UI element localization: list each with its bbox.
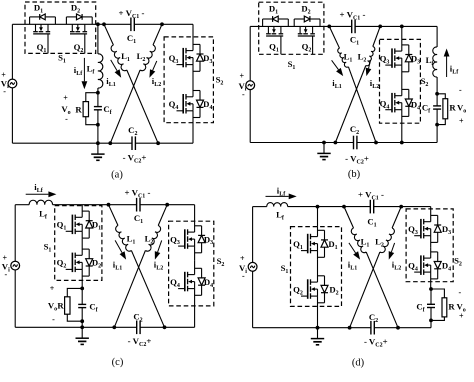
capacitor Cf fig-c	[81, 288, 83, 321]
switch box S2 fig-c	[169, 221, 214, 306]
inductor L2 fig-a diagonal	[153, 24, 162, 45]
transistor Q3 fig-a with diode D3	[192, 24, 194, 37]
current arrow iL2 fig-c	[158, 240, 162, 252]
current arrow iL2 fig-d	[391, 243, 394, 252]
svg-text:-: -	[459, 86, 462, 95]
svg-text:(c): (c)	[112, 357, 124, 368]
inductor Lf fig-b	[436, 26, 438, 47]
inductor L2 fig-b diagonal	[373, 26, 380, 46]
capacitor C1 fig-d	[370, 204, 373, 209]
switch box S2 fig-b	[380, 39, 421, 123]
svg-text:-: -	[65, 115, 68, 124]
node: fig-b diag bottoms	[334, 141, 338, 145]
source Vi fig-c	[11, 261, 20, 270]
svg-text:R: R	[57, 301, 64, 311]
wire: fig-a top bus	[12, 23, 193, 25]
svg-text:-: -	[52, 315, 55, 324]
node: fig-d output bottom	[429, 319, 433, 323]
svg-text:R: R	[449, 103, 456, 113]
transistor Q3 fig-c with diode D3	[194, 205, 196, 222]
svg-text:+: +	[240, 254, 245, 263]
node: fig-b output bottom	[435, 123, 439, 127]
wire: fig-c bottom bus	[15, 326, 194, 328]
ground fig-a	[97, 143, 99, 154]
wire: fig-b left branch	[249, 26, 251, 81]
node: fig-d L1 top	[342, 205, 346, 209]
ground fig-d	[317, 328, 319, 339]
ground fig-c	[81, 327, 83, 338]
inductor Lf fig-a	[97, 24, 99, 54]
node: fig-a diag left bottom	[108, 141, 112, 145]
capacitor Cf fig-d	[430, 289, 432, 320]
node: fig-a filter tap	[96, 22, 100, 26]
wire: fig-a bottom bus	[12, 142, 193, 144]
transistor Q4 fig-b with diode D4	[401, 79, 403, 96]
transistor Q3 fig-b with diode D3	[401, 26, 403, 40]
transistor Q3 fig-d with diode D3	[430, 207, 432, 209]
capacitor C2 fig-a	[132, 141, 135, 146]
source Vi fig-d	[248, 262, 257, 271]
wire: fig-d left branch	[252, 207, 254, 263]
output filter fig-a: node top	[96, 91, 100, 95]
node: fig-c output top	[80, 287, 84, 291]
transistor Q2 fig-b with diode D2	[293, 19, 295, 26]
node: fig-c output bottom	[80, 319, 84, 323]
svg-text:-: -	[459, 288, 462, 297]
transistor Q4 fig-a with diode D4	[192, 81, 194, 97]
capacitor C1 fig-c	[137, 202, 140, 207]
svg-text:+: +	[240, 72, 245, 81]
transistor Q1 fig-b with diode D1	[262, 19, 264, 26]
inductor L1 fig-b diagonal	[329, 26, 339, 48]
switch box S1 fig-b	[259, 2, 324, 54]
wire: fig-a left branch with source	[11, 24, 13, 79]
capacitor C2 fig-c	[137, 325, 140, 330]
switch box S1 fig-c	[55, 206, 102, 281]
wire: fig-b top bus	[250, 25, 437, 27]
svg-text:+: +	[50, 284, 55, 293]
transistor Q1 fig-d with diode D1	[317, 207, 319, 227]
inductor L2 fig-d diagonal	[392, 207, 401, 228]
capacitor Cf fig-a	[97, 93, 99, 125]
current arrow iL2 fig-a	[153, 61, 157, 71]
svg-text:-: -	[3, 87, 6, 96]
svg-text:R: R	[448, 302, 455, 312]
capacitor C2 fig-d	[371, 325, 374, 330]
svg-text:-: -	[5, 270, 8, 279]
node: fig-c ground junction	[80, 325, 84, 329]
capacitor C2 fig-b	[354, 140, 357, 145]
current arrow iLf fig-c	[26, 193, 49, 195]
wire: fig-d top bus with Lf gap	[253, 206, 267, 208]
transistor Q1 fig-c with diode D1	[81, 205, 83, 218]
node: fig-b L1 top	[327, 25, 331, 29]
current arrow iL1 fig-d	[349, 243, 356, 253]
node: fig-d L2 top	[399, 205, 403, 209]
inductor Lf fig-c	[29, 200, 52, 204]
capacitor Cf fig-b	[436, 94, 438, 125]
node: fig-a output bottom	[96, 123, 100, 127]
inductor Lf fig-d	[267, 203, 288, 207]
node: fig-a L1 top	[102, 22, 106, 26]
transistor Q2 fig-a with diode D2	[65, 17, 67, 24]
node: fig-b L2 top	[378, 25, 382, 29]
resistor R fig-a	[86, 93, 98, 102]
svg-text:(d): (d)	[352, 358, 365, 369]
node: fig-c L1 top	[107, 203, 111, 207]
wire: fig-b bottom bus	[250, 142, 437, 144]
node: fig-b S2 tap	[400, 25, 404, 29]
current arrow iL2 fig-b	[369, 60, 371, 68]
resistor R fig-b	[437, 94, 445, 99]
node: fig-a diag right bottom	[156, 141, 160, 145]
switch box S2 fig-d	[406, 209, 453, 282]
ground fig-b	[323, 143, 325, 154]
node: fig-d diag bottoms	[348, 326, 352, 330]
wire: fig-c left branch	[14, 205, 16, 262]
switch box S2 fig-a	[164, 37, 213, 123]
inductor L2 fig-c diagonal	[158, 205, 167, 226]
current arrow iL1 fig-a	[111, 60, 117, 71]
svg-text:-: -	[242, 90, 245, 99]
current arrow iL1 fig-c	[115, 240, 122, 252]
node: fig-a ground junction	[96, 141, 100, 145]
svg-text:(b): (b)	[348, 169, 361, 180]
svg-text:+: +	[459, 117, 464, 126]
node: fig-d ground junction	[316, 326, 320, 330]
transistor Q4 fig-c with diode D4	[194, 260, 196, 274]
inductor L1 fig-c diagonal	[109, 205, 119, 226]
resistor R fig-d	[431, 289, 444, 298]
svg-text:+: +	[63, 94, 68, 103]
source Vi fig-b	[246, 81, 255, 90]
node: fig-c L2 top	[165, 203, 169, 207]
capacitor C1 fig-b	[352, 24, 355, 29]
inductor L1 fig-a diagonal	[104, 24, 113, 45]
node: fig-d S1 tap	[316, 205, 320, 209]
current arrow iL1 fig-b	[332, 60, 339, 69]
node: fig-b ground junction	[322, 141, 326, 145]
current arrow iLf fig-a	[83, 58, 85, 81]
wire: fig-d bottom bus	[253, 327, 431, 329]
node: fig-b Q4 source junction	[400, 141, 404, 145]
node: fig-a L2 top	[160, 22, 164, 26]
resistor R fig-c	[67, 288, 82, 296]
node: fig-b output top	[435, 92, 439, 96]
svg-text:-: -	[242, 272, 245, 281]
transistor Q2 fig-d with diode D2	[317, 259, 319, 282]
inductor L1 fig-d diagonal	[344, 207, 354, 228]
current arrow iLf fig-d	[266, 195, 289, 197]
transistor Q1 fig-a with diode D1	[29, 17, 31, 24]
node: fig-c diag bottoms	[112, 325, 116, 329]
transistor Q2 fig-c with diode D2	[81, 239, 83, 255]
svg-text:R: R	[75, 105, 82, 115]
transistor Q4 fig-d with diode D4	[430, 247, 432, 258]
current arrow iLf fig-b	[446, 57, 448, 78]
switch box S1 fig-d	[291, 227, 342, 307]
capacitor C1 fig-a	[131, 22, 134, 27]
svg-text:(a): (a)	[111, 170, 123, 181]
svg-text:+: +	[459, 312, 464, 321]
wire: fig-c top bus with Lf gap	[15, 204, 29, 206]
source Vi fig-a	[8, 79, 17, 88]
switch box S1 fig-a	[25, 2, 96, 53]
node: fig-d output top	[429, 287, 433, 291]
